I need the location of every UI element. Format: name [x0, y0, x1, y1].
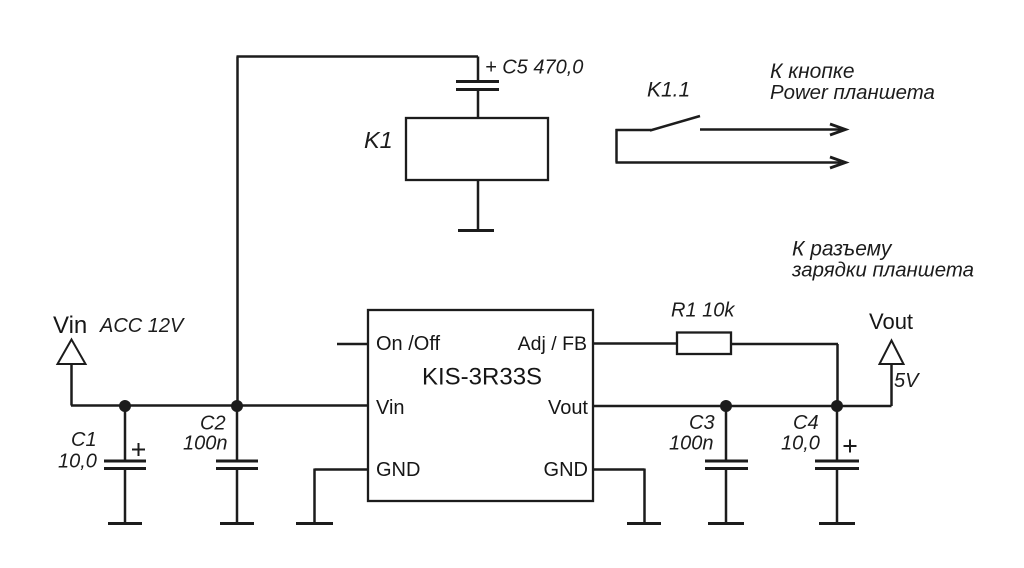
wire R1 to output node — [731, 344, 838, 406]
ground (C3) — [708, 522, 744, 525]
svg-text:C2: C2 — [200, 413, 226, 435]
svg-text:зарядки планшета: зарядки планшета — [791, 260, 974, 282]
IC U1 KIS-3R33S module — [368, 310, 593, 501]
svg-text:Adj / FB: Adj / FB — [518, 333, 587, 355]
svg-text:100n: 100n — [183, 433, 228, 455]
svg-text:K1: K1 — [364, 127, 393, 153]
svg-text:Vin: Vin — [53, 312, 87, 339]
svg-text:Vout: Vout — [869, 309, 913, 334]
capacitor C1 — [104, 406, 146, 523]
wire relay to ground — [477, 180, 480, 230]
ground (relay K1) — [458, 229, 494, 232]
wire main input rail — [71, 404, 368, 407]
ground (C1) — [108, 522, 142, 525]
wire arrow lower — [616, 157, 846, 168]
switch K1.1 — [616, 116, 701, 163]
svg-text:Vin: Vin — [376, 397, 405, 419]
wire riser to relay branch — [237, 57, 479, 407]
svg-text:R1 10k: R1 10k — [671, 300, 735, 322]
svg-text:C1: C1 — [71, 429, 97, 451]
wire output rail — [593, 405, 892, 408]
svg-text:C3: C3 — [689, 412, 715, 434]
svg-text:GND: GND — [376, 459, 420, 481]
svg-text:100n: 100n — [669, 433, 714, 455]
capacitor C5 — [456, 82, 499, 119]
node C (C3 junction) — [720, 400, 732, 412]
capacitor C4 — [815, 406, 859, 523]
wire arrow to Power button — [700, 124, 846, 135]
svg-text:Vout: Vout — [548, 397, 588, 419]
node B (C2 junction) — [231, 400, 243, 412]
svg-text:+ C5 470,0: + C5 470,0 — [485, 57, 583, 79]
svg-text:10,0: 10,0 — [58, 451, 97, 473]
wire GND right pin — [593, 469, 645, 523]
svg-text:K1.1: K1.1 — [647, 79, 690, 102]
svg-text:On /Off: On /Off — [376, 333, 441, 355]
capacitor C3 — [705, 406, 748, 523]
resistor R1 — [677, 333, 731, 355]
svg-text:Power планшета: Power планшета — [770, 82, 935, 104]
svg-text:10,0: 10,0 — [781, 433, 820, 455]
ground (C4) — [819, 522, 855, 525]
node D (C4 junction) — [831, 400, 843, 412]
svg-text:5V: 5V — [894, 370, 920, 392]
wire GND left pin — [315, 469, 369, 523]
svg-text:ACC 12V: ACC 12V — [99, 315, 185, 337]
ground (GND left) — [296, 522, 333, 525]
svg-text:GND: GND — [544, 459, 588, 481]
svg-text:KIS-3R33S: KIS-3R33S — [422, 364, 542, 391]
pin On/Off stub — [337, 343, 368, 346]
node A (C1 junction) — [119, 400, 131, 412]
svg-text:К кнопке: К кнопке — [770, 60, 855, 83]
power flag Vout — [880, 341, 904, 407]
svg-text:К разъему: К разъему — [792, 238, 893, 261]
power flag Vin — [58, 340, 86, 406]
wire Adj/FB to R1 — [593, 342, 677, 345]
ground (C2) — [220, 522, 254, 525]
svg-text:C4: C4 — [793, 412, 819, 434]
ground (GND right) — [627, 522, 661, 525]
capacitor C2 — [216, 406, 258, 523]
relay K1 coil — [406, 118, 548, 180]
